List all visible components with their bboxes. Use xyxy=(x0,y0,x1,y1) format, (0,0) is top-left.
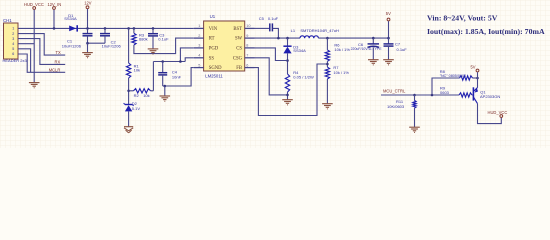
junction CS / D3 / R4 xyxy=(286,59,289,62)
signal ground below D2 xyxy=(124,127,133,133)
junction output / R6 xyxy=(326,37,329,40)
power port HUD_VCC xyxy=(33,7,36,10)
value D2 5.1V xyxy=(132,106,141,111)
pin 2 RT U1 xyxy=(194,34,215,42)
wire FB pin to divider xyxy=(255,64,328,116)
value R6 10k 1% xyxy=(334,47,350,52)
wire C6 to ground xyxy=(372,47,374,59)
svg-text:RT: RT xyxy=(209,37,215,42)
connector CH1 xyxy=(4,23,19,59)
power port HUD_VCC output xyxy=(500,115,503,118)
svg-text:L1: L1 xyxy=(291,28,296,33)
designator C1 xyxy=(67,39,73,44)
wire C2 down xyxy=(104,36,106,43)
value C3 0.1uF xyxy=(158,36,169,41)
net label TX xyxy=(56,50,62,55)
svg-text:10k / 1%: 10k / 1% xyxy=(334,47,350,52)
svg-text:MCU_CTRL: MCU_CTRL xyxy=(383,89,406,94)
pin 10 BST U1 xyxy=(233,24,254,32)
junction bus / C3 xyxy=(152,27,155,30)
value R4 0.05 1/2W xyxy=(293,75,314,80)
wire CH1 pin3 to RX xyxy=(18,39,65,65)
pin number 4 CH1 xyxy=(12,42,14,46)
power port 5V at Q1 xyxy=(476,69,479,72)
wire CS pin to sense node xyxy=(255,48,288,61)
value C2 10uF/1206 xyxy=(102,43,122,48)
power port name 5V output xyxy=(386,11,391,16)
svg-text:D2: D2 xyxy=(132,101,138,106)
wire C5 to SW rail xyxy=(273,28,279,38)
resistor R9 xyxy=(459,93,472,97)
junction output / C6 xyxy=(372,37,375,40)
wire 5V port to output rail xyxy=(388,21,390,38)
pin 5 SGND U1 xyxy=(194,63,222,71)
value L1 xyxy=(300,28,339,33)
svg-text:AP2303GN: AP2303GN xyxy=(480,94,500,99)
pin 8 CS U1 xyxy=(236,44,254,52)
wire CH1 pin6 to MCLR xyxy=(18,54,65,72)
svg-text:2: 2 xyxy=(198,34,200,38)
op-amp U1 LM25011 body xyxy=(204,21,245,71)
ground below C1 C2 xyxy=(82,53,93,58)
pin 1 VIN U1 xyxy=(194,24,218,32)
ground below R11 xyxy=(409,127,420,132)
resistor R7 xyxy=(325,67,329,79)
diode D3 SS34A xyxy=(283,46,291,53)
designator R8 xyxy=(440,69,446,74)
pin number 3 CH1 xyxy=(12,37,14,41)
svg-text:HUD_VCC: HUD_VCC xyxy=(488,110,508,115)
wire SGND pin to ground net xyxy=(163,68,194,86)
diode D1 SS34A xyxy=(69,25,77,31)
wire 12V_IN to bus xyxy=(53,10,55,29)
junction MCU_CTRL / R11 xyxy=(413,94,416,97)
svg-text:Iout(max): 1.85A, Iout(min): 7: Iout(max): 1.85A, Iout(min): 70mA xyxy=(427,27,545,36)
junction C4 / SGND / ground xyxy=(164,85,167,88)
svg-text:0.1uF: 0.1uF xyxy=(158,36,169,41)
svg-text:12V_IN: 12V_IN xyxy=(48,2,62,7)
value R3 680k xyxy=(139,37,148,42)
svg-text:3: 3 xyxy=(198,44,200,48)
pin 4 SS U1 xyxy=(194,54,215,62)
capacitor C3 xyxy=(148,34,158,36)
svg-text:10uF/1206: 10uF/1206 xyxy=(62,43,82,48)
svg-text:5V: 5V xyxy=(386,11,391,16)
wire C3 to ground xyxy=(152,36,154,49)
wire C1 to ground net xyxy=(87,36,89,43)
svg-text:HEADER 2x3: HEADER 2x3 xyxy=(3,58,28,63)
junction CSG / R4 xyxy=(286,94,289,97)
svg-text:5: 5 xyxy=(198,63,200,67)
power port 12V xyxy=(86,6,89,9)
power port name HUD_VCC xyxy=(24,2,44,7)
value C6 xyxy=(351,47,383,51)
designator C5 xyxy=(259,16,265,21)
svg-text:10k / 1%: 10k / 1% xyxy=(333,70,349,75)
junction C1 bottom / ground xyxy=(86,42,89,45)
svg-text:"NC" 0805/0603: "NC" 0805/0603 xyxy=(440,74,466,78)
svg-text:CH1: CH1 xyxy=(3,18,12,23)
junction output / C7 xyxy=(387,37,390,40)
power port 12V_IN xyxy=(53,7,56,10)
wire bus to C2 xyxy=(104,28,106,33)
value LM25011 xyxy=(205,74,223,79)
designator C6 xyxy=(358,42,364,47)
svg-text:10K/0603: 10K/0603 xyxy=(387,104,405,109)
junction PGD / SS net xyxy=(179,60,182,63)
junction bus / C2 xyxy=(104,27,107,30)
ground below R4 xyxy=(282,100,293,105)
capacitor C5 xyxy=(270,23,273,31)
svg-text:9: 9 xyxy=(246,34,248,38)
svg-text:4: 4 xyxy=(198,54,200,58)
svg-text:7: 7 xyxy=(246,54,248,58)
ground below C7 xyxy=(383,60,394,65)
ground below C4 xyxy=(160,96,171,101)
wire SS pin down xyxy=(185,58,194,62)
designator C7 xyxy=(395,42,401,47)
svg-text:FB: FB xyxy=(236,66,242,71)
svg-text:CS: CS xyxy=(236,47,242,52)
wire D2 to ground xyxy=(128,111,130,126)
capacitor C6 polarized xyxy=(368,44,380,47)
wire to ground xyxy=(33,72,35,82)
capacitor C1 xyxy=(83,34,93,36)
svg-text:0.1uF: 0.1uF xyxy=(268,16,279,21)
wire CH1 pin4 to HUD_VCC xyxy=(18,43,34,45)
svg-text:6: 6 xyxy=(12,52,14,56)
power port name 12V xyxy=(84,0,92,5)
value C4 10nF xyxy=(172,74,182,79)
resistor R8 xyxy=(460,76,473,80)
wire bus to R3 xyxy=(133,28,135,33)
svg-text:SS: SS xyxy=(209,56,215,61)
capacitor C2 xyxy=(100,34,110,36)
wire to ground xyxy=(87,43,89,52)
value R9 0603 xyxy=(440,90,450,95)
wire to C4 xyxy=(162,62,164,73)
junction SS net / C4 xyxy=(161,60,164,63)
designator D3 xyxy=(293,44,299,49)
value D3 SS34A xyxy=(293,48,306,53)
svg-text:VIN: VIN xyxy=(209,27,218,32)
svg-text:SS34A: SS34A xyxy=(293,48,306,53)
wire R2 to riser xyxy=(151,90,154,92)
junction bus / R1 xyxy=(127,27,130,30)
wire SS net horizontal xyxy=(153,61,185,63)
svg-text:SW: SW xyxy=(235,37,243,42)
designator R3 xyxy=(139,33,145,38)
svg-text:SGND: SGND xyxy=(209,66,222,71)
power port 5V output xyxy=(387,18,390,21)
net label RX xyxy=(55,59,61,64)
junction bus / C1 xyxy=(86,27,89,30)
svg-text:R2: R2 xyxy=(134,93,140,98)
designator C2 xyxy=(111,39,117,44)
junction bus / R3 xyxy=(133,27,136,30)
junction FB / divider xyxy=(326,63,329,66)
junction MCU_CTRL / R8 riser xyxy=(431,94,434,97)
wire output rail xyxy=(318,37,388,39)
svg-text:SS34A: SS34A xyxy=(64,16,77,21)
svg-text:C7: C7 xyxy=(395,42,401,47)
wire HUD_VCC vertical xyxy=(33,10,35,73)
wire CSG pin to R4 bottom xyxy=(255,58,288,95)
designator C3 xyxy=(159,32,165,37)
svg-text:5V: 5V xyxy=(471,65,476,70)
note Vin/Vout xyxy=(427,13,498,22)
wire BST to C5 xyxy=(255,27,270,29)
svg-text:LM25011: LM25011 xyxy=(205,74,223,79)
svg-text:12V: 12V xyxy=(84,0,92,5)
svg-text:5: 5 xyxy=(12,47,14,51)
svg-text:C5: C5 xyxy=(259,16,265,21)
inductor L1 SMTDRH104R_47uH xyxy=(300,36,318,38)
svg-text:10: 10 xyxy=(246,24,250,28)
svg-text:0.1uF: 0.1uF xyxy=(397,47,408,52)
transistor Q1 AP2303GN xyxy=(473,87,478,103)
wire SW to D3 xyxy=(287,38,289,46)
wire 12V bus xyxy=(54,27,194,29)
value C5 0.1uF xyxy=(268,16,279,21)
svg-text:PGD: PGD xyxy=(209,47,219,52)
wire output to R6 xyxy=(326,38,328,50)
svg-text:RX: RX xyxy=(55,59,61,64)
pin 7 CSG U1 xyxy=(233,54,255,62)
ground below CH1 xyxy=(29,83,40,88)
wire CH1 pin1 to bus xyxy=(18,27,54,29)
designator R4 xyxy=(293,70,299,75)
svg-text:10nF: 10nF xyxy=(172,74,182,79)
resistor R11 xyxy=(413,101,416,109)
designator U1 xyxy=(210,14,216,19)
designator D1 xyxy=(68,13,74,18)
svg-text:MCLR: MCLR xyxy=(49,68,61,73)
svg-text:6: 6 xyxy=(246,63,248,67)
wire to R11 xyxy=(414,95,416,101)
wire output to C6 xyxy=(372,38,374,44)
wire C4 bottom xyxy=(162,75,164,86)
junction C5 / SW xyxy=(277,37,280,40)
wire 5V to Q1 source xyxy=(477,72,479,87)
svg-text:5.1V: 5.1V xyxy=(132,106,141,111)
note Iout xyxy=(427,27,545,36)
wire bus to C3 xyxy=(152,28,154,33)
value R8 NC xyxy=(440,74,466,78)
wire Q1 drain to HUD_VCC xyxy=(478,104,502,124)
svg-text:0603: 0603 xyxy=(440,90,450,95)
value R11 10K/0603 xyxy=(387,104,405,109)
wire PGD pin down xyxy=(180,48,193,62)
designator C4 xyxy=(172,69,178,74)
wire riser to R8 xyxy=(432,78,460,95)
junction 12V_IN / bus xyxy=(53,27,56,30)
value C7 0.1uF xyxy=(397,47,408,52)
pin 9 SW U1 xyxy=(235,34,255,42)
pin 6 FB U1 xyxy=(236,63,254,71)
wire D3 to R4 xyxy=(287,53,289,74)
power port name 5V at Q1 xyxy=(471,65,476,70)
net label MCU_CTRL xyxy=(383,89,406,94)
value R7 10k 1% xyxy=(333,70,349,75)
wire CH1 pin2 to TX xyxy=(18,34,65,56)
pin number 1 CH1 xyxy=(12,27,14,31)
net label MCLR xyxy=(49,68,61,73)
capacitor C7 xyxy=(384,44,394,46)
value HEADER 2x3 xyxy=(3,58,28,63)
power port name HUD_VCC output xyxy=(488,110,508,115)
wire C1-C2 bottoms xyxy=(88,42,106,44)
svg-text:8: 8 xyxy=(246,44,248,48)
svg-text:2: 2 xyxy=(12,32,14,36)
designator Q1 xyxy=(480,90,486,95)
svg-text:Vin: 8~24V, Vout: 5V: Vin: 8~24V, Vout: 5V xyxy=(427,13,498,22)
svg-text:1: 1 xyxy=(198,24,200,28)
wire CH1 pin5 down xyxy=(18,49,31,73)
designator D2 xyxy=(132,101,138,106)
wire R1 node to R2 xyxy=(129,90,134,92)
ground below R7 xyxy=(322,104,333,109)
value R1 10k xyxy=(134,67,140,72)
svg-text:10uF/1206: 10uF/1206 xyxy=(102,43,122,48)
designator L1 xyxy=(291,28,296,33)
wire R4 to ground xyxy=(287,92,289,100)
svg-text:680k: 680k xyxy=(139,37,148,42)
wire to ground xyxy=(164,86,166,96)
wire R3 to RT pin xyxy=(134,38,194,54)
pin number 2 CH1 xyxy=(12,32,14,36)
ground below C6 xyxy=(368,60,379,65)
designator R2 xyxy=(134,93,140,98)
resistor R1 xyxy=(126,63,130,78)
svg-text:HUD_VCC: HUD_VCC xyxy=(24,2,44,7)
wire output to C7 xyxy=(388,38,390,44)
power port name 12V_IN xyxy=(48,2,62,7)
junction SW / D3 xyxy=(286,37,289,40)
pin number 6 CH1 xyxy=(12,52,14,56)
svg-text:10k: 10k xyxy=(143,93,149,98)
value D1 SS34A xyxy=(64,16,77,21)
wire bus to C1 xyxy=(87,28,89,33)
svg-text:4: 4 xyxy=(12,42,14,46)
svg-text:BST: BST xyxy=(233,27,242,32)
junction R8 / 5V net xyxy=(476,77,479,80)
wire R7 to ground xyxy=(326,79,328,104)
wire R8 to 5V net xyxy=(473,77,478,79)
svg-text:1: 1 xyxy=(12,27,14,31)
wire SW rail xyxy=(255,37,301,39)
resistor R3 xyxy=(132,33,136,45)
zener diode D2 5.1V xyxy=(124,103,134,111)
wire C7 to ground xyxy=(388,46,390,59)
capacitor C4 xyxy=(158,73,167,75)
resistor R4 xyxy=(285,74,289,92)
wire bus to R1 xyxy=(128,28,130,63)
designator R7 xyxy=(333,65,339,70)
svg-text:0.05 / 1/2W: 0.05 / 1/2W xyxy=(293,75,314,80)
designator R11 xyxy=(396,99,404,104)
designator CH1 xyxy=(3,18,12,23)
designator R6 xyxy=(334,43,340,48)
wire R1 to D2 xyxy=(128,78,130,104)
svg-text:220uF/10V/D-TYPE: 220uF/10V/D-TYPE xyxy=(351,47,383,51)
svg-text:CSG: CSG xyxy=(233,56,243,61)
value C1 10uF/1206 xyxy=(62,43,82,48)
svg-text:SMTDRH104R_47uH: SMTDRH104R_47uH xyxy=(300,28,339,33)
resistor R6 xyxy=(325,50,329,61)
ground below C3 xyxy=(148,49,159,54)
svg-text:3: 3 xyxy=(12,37,14,41)
svg-text:U1: U1 xyxy=(210,14,216,19)
designator R9 xyxy=(440,86,446,91)
wire 12V to bus xyxy=(87,9,89,28)
svg-text:10k: 10k xyxy=(134,67,140,72)
pin number 5 CH1 xyxy=(12,47,14,51)
wire R9 to Q1 gate xyxy=(471,94,474,96)
pin 3 PGD U1 xyxy=(194,44,219,52)
wire R6 to R7 xyxy=(326,61,328,67)
value Q1 AP2303GN xyxy=(480,94,500,99)
resistor R2 xyxy=(134,89,151,93)
junction R1 / R2 / D2 xyxy=(127,90,130,93)
wire SS net to R2 xyxy=(152,62,154,91)
wire MCU_CTRL rail xyxy=(381,94,459,96)
designator R1 xyxy=(134,63,140,68)
wire R11 to ground xyxy=(414,108,416,127)
value R2 10k xyxy=(143,93,149,98)
svg-text:TX: TX xyxy=(56,50,62,55)
